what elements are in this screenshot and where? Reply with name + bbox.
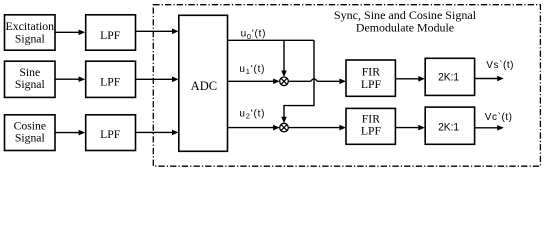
svg-text:u2'(t): u2'(t) bbox=[239, 109, 265, 121]
ADC block bbox=[179, 15, 228, 151]
wire Cosine to LPF3 bbox=[55, 130, 85, 136]
LPF block 1 bbox=[86, 15, 136, 50]
svg-text:Signal: Signal bbox=[15, 78, 46, 91]
node u1'(t) label bbox=[239, 64, 265, 76]
2K:1 block 1 bbox=[425, 58, 474, 95]
svg-text:Sync, Sine and Cosine Signal: Sync, Sine and Cosine Signal bbox=[334, 9, 477, 22]
node u0'(t) label bbox=[241, 29, 267, 41]
LPF block 3 bbox=[86, 115, 136, 151]
wire u1 from ADC to M1 bbox=[228, 79, 280, 85]
svg-text:FIR: FIR bbox=[362, 112, 380, 125]
svg-text:Signal: Signal bbox=[15, 132, 46, 145]
svg-text:u0'(t): u0'(t) bbox=[241, 29, 267, 41]
wire Sine to LPF2 bbox=[55, 76, 85, 82]
svg-text:LPF: LPF bbox=[100, 75, 121, 88]
block Cosine Signal bbox=[5, 115, 56, 151]
svg-text:2K:1: 2K:1 bbox=[438, 121, 459, 133]
dashed module border bbox=[153, 5, 540, 167]
svg-text:u1'(t): u1'(t) bbox=[239, 64, 265, 76]
output wire Vc bbox=[475, 125, 504, 131]
title: Sync, Sine and Cosine Signal Demodulate Module bbox=[334, 9, 477, 34]
wire u0 branch down to multiplier M1 bbox=[281, 40, 287, 77]
wire u0 horizontal from ADC bbox=[228, 39, 315, 41]
wire LPF3 to ADC bbox=[136, 130, 179, 136]
FIR LPF block 1 bbox=[346, 60, 395, 96]
LPF block 2 bbox=[86, 61, 136, 97]
multiplier M1 bbox=[280, 77, 289, 86]
wire FIR2 to 2K:1 block 2 bbox=[395, 125, 425, 131]
FIR LPF block 2 bbox=[346, 108, 395, 144]
multiplier M2 bbox=[280, 123, 289, 132]
svg-text:LPF: LPF bbox=[361, 125, 382, 138]
wire Excitation to LPF1 bbox=[55, 30, 85, 36]
output wire Vs bbox=[475, 76, 504, 82]
svg-text:2K:1: 2K:1 bbox=[438, 72, 459, 84]
wire u0 corner down right side bbox=[281, 40, 314, 123]
svg-text:ADC: ADC bbox=[191, 79, 218, 93]
wire LPF1 to ADC bbox=[136, 29, 179, 35]
svg-text:LPF: LPF bbox=[100, 29, 121, 42]
svg-text:LPF: LPF bbox=[100, 128, 121, 141]
svg-text:Demodulate Module: Demodulate Module bbox=[356, 22, 454, 35]
svg-text:Excitation: Excitation bbox=[6, 20, 55, 33]
block Excitation Signal bbox=[5, 15, 56, 50]
block Sine Signal bbox=[5, 61, 56, 97]
node Vs`(t) label bbox=[486, 59, 514, 71]
wire M2 to FIR2 bbox=[288, 125, 346, 131]
node Vc`(t) label bbox=[485, 111, 513, 123]
svg-text:FIR: FIR bbox=[362, 66, 380, 79]
wire M1 to FIR1 with hop bbox=[288, 79, 346, 85]
2K:1 block 2 bbox=[425, 107, 474, 144]
wire u2 from ADC to M2 bbox=[228, 125, 280, 131]
wire FIR1 to 2K:1 block 1 bbox=[395, 76, 425, 82]
svg-text:Vs`(t): Vs`(t) bbox=[486, 59, 514, 71]
wire LPF2 to ADC bbox=[136, 77, 179, 83]
svg-text:LPF: LPF bbox=[361, 78, 382, 91]
svg-text:Signal: Signal bbox=[15, 32, 46, 45]
node u2'(t) label bbox=[239, 109, 265, 121]
svg-text:Vc`(t): Vc`(t) bbox=[485, 111, 513, 123]
